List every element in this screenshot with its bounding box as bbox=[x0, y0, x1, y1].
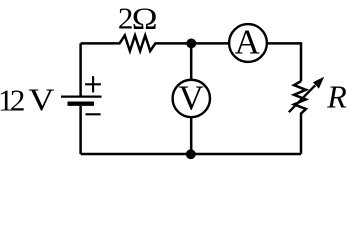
svg-text:Ω: Ω bbox=[132, 2, 158, 36]
svg-text:A: A bbox=[235, 23, 261, 62]
svg-text:R: R bbox=[326, 79, 347, 115]
svg-text:2: 2 bbox=[10, 82, 26, 117]
svg-text:V: V bbox=[29, 83, 55, 118]
svg-text:V: V bbox=[179, 78, 204, 117]
